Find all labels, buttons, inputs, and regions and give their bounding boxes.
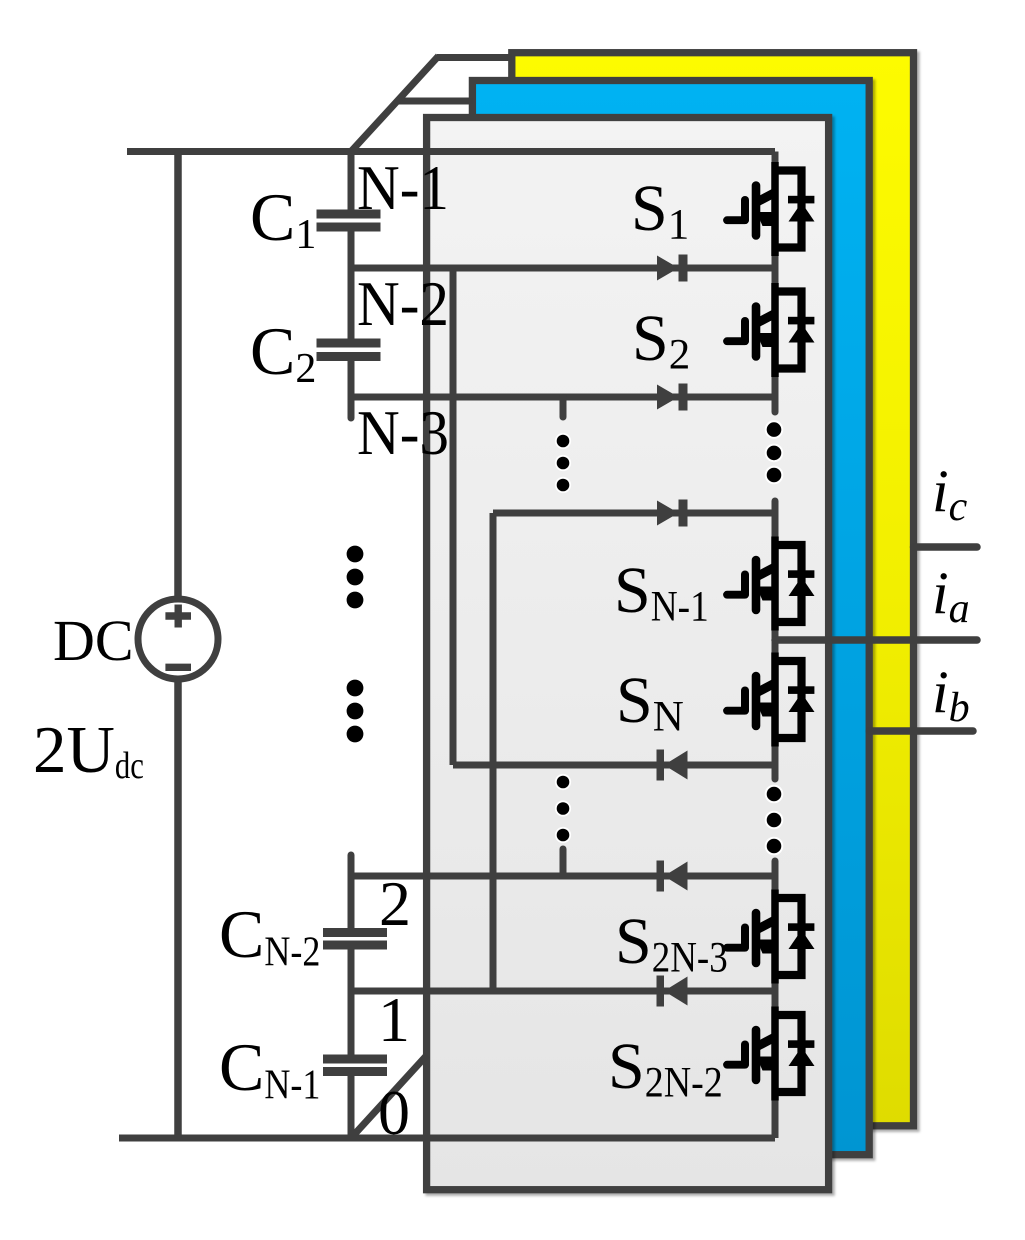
wire chain stub S2N-2 to bottom bus — [772, 1088, 779, 1138]
DC source minus sign — [165, 664, 191, 671]
clamp diode D3 — [657, 500, 688, 527]
svg-text:CN-1: CN-1 — [219, 1029, 320, 1109]
wire output ib — [869, 727, 973, 735]
svg-text:C1: C1 — [250, 179, 316, 258]
svg-text:0: 0 — [378, 1077, 410, 1148]
wire 3D diagonal top — [351, 56, 439, 152]
wire node N-3 horizontal — [351, 394, 775, 401]
svg-text:1: 1 — [378, 984, 410, 1055]
wire mid bus to blue panel — [397, 98, 473, 105]
svg-text:N-1: N-1 — [357, 152, 449, 223]
wire inner vertical 1 — [450, 268, 457, 765]
wire chain stub S2N-3 to node1 wire — [772, 970, 779, 1019]
svg-text:N-2: N-2 — [357, 268, 449, 339]
wire chain stub SN to level4 wire — [772, 734, 779, 779]
capacitor C2 plates — [317, 339, 381, 348]
wire node N-2 horizontal — [351, 265, 775, 272]
svg-text:DC: DC — [53, 608, 134, 673]
phase panel B (blue, middle) — [472, 81, 869, 1155]
svg-text:2Udc: 2Udc — [33, 713, 144, 787]
wire capacitor ladder segment 1 — [348, 148, 355, 210]
wire clamp level 3 horizontal — [493, 510, 775, 517]
ellipsis dots chain group 1 — [766, 421, 783, 483]
svg-text:N-3: N-3 — [357, 397, 449, 468]
ellipsis dots ladder group 2 — [347, 680, 364, 743]
transistor S2N-2 (IGBT with diode) — [727, 1007, 815, 1101]
svg-text:ib: ib — [932, 659, 970, 731]
wire inner vertical 2 — [490, 513, 497, 991]
wire clamp level 4 horizontal — [453, 762, 775, 769]
wire 3D diagonal bottom — [352, 1055, 427, 1137]
wire mid-column stub bottom — [560, 849, 567, 876]
transistor SN-1 (IGBT with diode) — [727, 537, 815, 631]
svg-text:ic: ic — [932, 458, 968, 530]
wire output ic — [914, 543, 978, 551]
clamp diode D5 — [657, 861, 688, 892]
DC source U1 circle — [138, 599, 218, 679]
wire mid-column stub top — [560, 397, 567, 417]
wire capacitor ladder segment 4 — [348, 855, 355, 928]
svg-text:CN-2: CN-2 — [219, 896, 320, 976]
svg-text:ia: ia — [932, 560, 970, 632]
transistor SN (IGBT with diode) — [727, 653, 815, 747]
ellipsis dots mid-column group 1 — [556, 434, 570, 492]
wire capacitor ladder segment 6 — [348, 1076, 355, 1138]
capacitor CN-1 plates — [323, 1055, 387, 1064]
ellipsis dots mid-column group 2 — [556, 775, 570, 842]
clamp diode D4 — [657, 750, 688, 781]
wire chain stub bus-S1 handled by igbt; stub S1-N2 — [772, 152, 779, 166]
capacitor C1 plates — [317, 210, 381, 219]
transistor S2 (IGBT with diode) — [727, 283, 815, 377]
phase panel A (gray, front) — [427, 118, 829, 1190]
clamp diode D2 — [657, 384, 688, 411]
wire chain stub SN-1 to ia node — [772, 618, 779, 666]
wire capacitor ladder segment 5 — [348, 950, 355, 1055]
ellipsis dots chain group 2 — [766, 786, 783, 855]
wire capacitor ladder segment 3 — [348, 361, 355, 418]
wire top bus to yellow panel — [437, 54, 512, 61]
clamp diode D1 — [657, 255, 688, 282]
wire chain stub above level3 wire — [772, 501, 779, 550]
wire node 2 horizontal — [351, 873, 775, 880]
wire output ia — [775, 636, 977, 644]
ellipsis dots ladder group 1 — [347, 546, 364, 609]
wire bottom DC bus — [119, 1135, 775, 1142]
wire left DC vertical — [174, 152, 182, 1139]
transistor S2N-3 (IGBT with diode) — [727, 890, 815, 984]
svg-text:C2: C2 — [250, 313, 316, 392]
wire chain stub above node2 wire — [772, 861, 779, 902]
wire top DC bus — [127, 148, 775, 155]
capacitor CN-2 plates — [323, 928, 387, 937]
svg-text:2: 2 — [379, 868, 411, 939]
wire capacitor ladder segment 2 — [348, 232, 355, 339]
clamp diode D6 — [657, 976, 688, 1007]
phase panel C (yellow, back) — [512, 53, 914, 1126]
DC source plus sign — [165, 612, 191, 619]
wire chain stub S2 to N-3 wire — [772, 372, 779, 412]
transistor S1 (IGBT with diode) — [727, 162, 815, 256]
wire node 1 horizontal — [351, 988, 775, 995]
